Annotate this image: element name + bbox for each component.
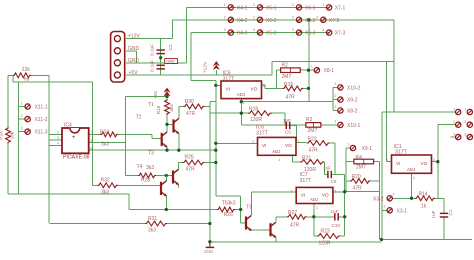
- svg-text:+: +: [72, 134, 76, 141]
- svg-text:3: 3: [252, 140, 254, 144]
- svg-text:R3: R3: [306, 117, 313, 123]
- svg-text:3k3: 3k3: [148, 228, 156, 234]
- svg-text:1nF: 1nF: [323, 166, 331, 171]
- svg-text:GND: GND: [128, 46, 140, 52]
- svg-text:1: 1: [278, 158, 280, 162]
- svg-text:C8: C8: [331, 179, 337, 184]
- svg-text:VO: VO: [421, 161, 428, 166]
- svg-text:VO: VO: [285, 143, 292, 148]
- svg-text:2: 2: [253, 15, 255, 19]
- svg-text:3: 3: [322, 28, 324, 32]
- svg-text:GND: GND: [204, 249, 214, 254]
- svg-text:1: 1: [253, 3, 255, 7]
- svg-text:2M7: 2M7: [356, 165, 366, 171]
- svg-text:X9-2: X9-2: [347, 98, 358, 104]
- svg-text:X4-2: X4-2: [237, 18, 248, 24]
- svg-text:47R: 47R: [290, 223, 300, 229]
- svg-text:C10: C10: [332, 223, 341, 228]
- svg-text:ADJ: ADJ: [407, 167, 415, 172]
- svg-text:2M7: 2M7: [282, 74, 292, 80]
- svg-text:R30: R30: [185, 99, 194, 105]
- svg-text:1: 1: [453, 108, 455, 112]
- svg-text:X8-2: X8-2: [347, 109, 358, 115]
- svg-text:R26: R26: [224, 212, 233, 218]
- svg-text:ADJ: ADJ: [310, 197, 318, 202]
- svg-text:1: 1: [316, 206, 318, 210]
- svg-text:X11-2: X11-2: [35, 117, 48, 123]
- svg-text:VI: VI: [226, 87, 230, 92]
- svg-text:+5V: +5V: [153, 90, 158, 99]
- svg-text:R31: R31: [148, 216, 157, 222]
- svg-text:GND: GND: [166, 59, 175, 64]
- svg-text:T6: T6: [246, 205, 252, 211]
- svg-text:0.1uF: 0.1uF: [150, 44, 155, 56]
- svg-text:VO: VO: [322, 192, 329, 197]
- svg-text:3: 3: [292, 28, 294, 32]
- svg-text:2: 2: [316, 15, 318, 19]
- svg-text:3: 3: [253, 28, 255, 32]
- svg-text:3: 3: [291, 189, 293, 193]
- svg-text:R4: R4: [356, 155, 363, 161]
- svg-text:2: 2: [21, 114, 23, 118]
- svg-text:3k3: 3k3: [228, 201, 236, 207]
- svg-text:47R: 47R: [353, 186, 363, 192]
- svg-text:+12V: +12V: [128, 34, 140, 40]
- svg-text:6: 6: [91, 146, 93, 150]
- svg-text:3: 3: [453, 133, 455, 137]
- svg-text:X4-1: X4-1: [237, 5, 248, 11]
- svg-text:120R: 120R: [304, 167, 316, 173]
- svg-text:X4-3: X4-3: [237, 31, 248, 37]
- svg-text:2: 2: [433, 158, 435, 162]
- svg-text:T4: T4: [137, 164, 143, 170]
- svg-text:47R: 47R: [186, 167, 196, 173]
- svg-text:3: 3: [216, 84, 218, 88]
- svg-text:T1: T1: [148, 102, 154, 108]
- svg-text:R21: R21: [302, 156, 311, 162]
- svg-text:2: 2: [464, 120, 466, 124]
- svg-text:2: 2: [292, 15, 294, 19]
- svg-text:3: 3: [57, 136, 59, 140]
- svg-text:317T: 317T: [395, 150, 408, 156]
- svg-text:1: 1: [21, 102, 23, 106]
- svg-text:IC4: IC4: [64, 122, 72, 128]
- svg-text:R22: R22: [308, 137, 317, 143]
- svg-text:3k3: 3k3: [101, 142, 109, 148]
- svg-text:1: 1: [384, 204, 386, 208]
- svg-text:2: 2: [334, 82, 336, 86]
- svg-text:GND: GND: [128, 58, 140, 64]
- svg-text:VO: VO: [251, 87, 258, 92]
- svg-text:4: 4: [57, 142, 59, 146]
- svg-text:X3-2: X3-2: [373, 196, 384, 202]
- svg-text:C2: C2: [168, 44, 173, 50]
- svg-text:317T: 317T: [223, 76, 236, 82]
- svg-text:X7-1: X7-1: [335, 5, 346, 11]
- svg-text:1: 1: [464, 108, 466, 112]
- svg-text:R20: R20: [352, 174, 361, 180]
- svg-text:5: 5: [91, 139, 93, 143]
- svg-text:22k: 22k: [22, 67, 31, 73]
- svg-text:2: 2: [57, 131, 59, 135]
- svg-text:X11-3: X11-3: [35, 130, 48, 136]
- svg-text:1: 1: [322, 3, 324, 7]
- svg-text:2: 2: [263, 84, 265, 88]
- svg-text:3k3: 3k3: [101, 190, 109, 196]
- svg-text:R27: R27: [288, 210, 297, 216]
- svg-text:R18: R18: [249, 107, 258, 113]
- svg-text:R24: R24: [0, 131, 4, 140]
- svg-text:1: 1: [243, 101, 245, 105]
- svg-text:C1: C1: [448, 209, 453, 215]
- svg-text:1nF: 1nF: [283, 118, 291, 123]
- svg-text:X10-2: X10-2: [347, 85, 361, 91]
- svg-text:1: 1: [292, 3, 294, 7]
- svg-text:3: 3: [464, 133, 466, 137]
- svg-text:7: 7: [91, 130, 93, 134]
- svg-text:R16: R16: [284, 82, 293, 88]
- svg-text:ADJ: ADJ: [272, 149, 280, 154]
- svg-text:X7-2: X7-2: [329, 18, 340, 24]
- svg-text:VI: VI: [301, 192, 305, 197]
- svg-text:2: 2: [334, 105, 336, 109]
- svg-text:1: 1: [413, 176, 415, 180]
- svg-text:1: 1: [224, 3, 226, 7]
- svg-text:2: 2: [393, 192, 395, 196]
- svg-text:1: 1: [348, 143, 350, 147]
- svg-text:VI: VI: [262, 143, 266, 148]
- svg-text:R14: R14: [419, 191, 428, 197]
- svg-text:C6: C6: [285, 130, 291, 135]
- svg-text:3k3: 3k3: [169, 104, 174, 112]
- svg-text:R33: R33: [100, 130, 109, 136]
- svg-text:X11-1: X11-1: [35, 105, 48, 111]
- svg-text:1: 1: [334, 119, 336, 123]
- svg-text:X6-2: X6-2: [305, 18, 316, 24]
- svg-text:ADJ: ADJ: [237, 92, 245, 97]
- svg-text:R19: R19: [156, 105, 161, 114]
- svg-text:+12V: +12V: [203, 61, 209, 73]
- svg-text:X9-1: X9-1: [362, 146, 373, 152]
- svg-text:R32: R32: [101, 177, 110, 183]
- svg-text:3: 3: [224, 28, 226, 32]
- svg-text:X3-1: X3-1: [397, 208, 408, 214]
- svg-text:18k: 18k: [10, 131, 15, 139]
- svg-text:X5-3: X5-3: [266, 31, 277, 37]
- svg-text:R25: R25: [185, 155, 194, 161]
- svg-text:3: 3: [386, 158, 388, 162]
- svg-text:1: 1: [311, 65, 313, 69]
- svg-text:1nF: 1nF: [331, 209, 339, 214]
- svg-text:3k3: 3k3: [146, 165, 154, 171]
- svg-text:47R: 47R: [286, 94, 296, 100]
- svg-text:X10-1: X10-1: [347, 123, 361, 129]
- svg-text:X7-3: X7-3: [335, 31, 346, 37]
- svg-text:+5V: +5V: [129, 70, 139, 76]
- svg-text:317T: 317T: [256, 130, 269, 136]
- svg-text:X6-3: X6-3: [305, 31, 316, 37]
- svg-text:2: 2: [334, 189, 336, 193]
- svg-text:0.1uF: 0.1uF: [150, 60, 155, 72]
- svg-text:X8-1: X8-1: [324, 68, 335, 74]
- svg-text:1k: 1k: [421, 204, 427, 210]
- svg-text:2: 2: [224, 15, 226, 19]
- svg-text:120R: 120R: [250, 117, 262, 123]
- svg-text:2: 2: [453, 120, 455, 124]
- svg-text:2: 2: [334, 94, 336, 98]
- svg-text:T3: T3: [148, 151, 154, 157]
- svg-text:120R: 120R: [319, 240, 331, 246]
- svg-text:47R: 47R: [309, 148, 319, 154]
- svg-text:X5-2: X5-2: [266, 18, 277, 24]
- svg-text:R23: R23: [321, 229, 330, 235]
- svg-text:PICAXE-08: PICAXE-08: [63, 154, 90, 160]
- svg-text:3: 3: [21, 127, 23, 131]
- svg-text:VI: VI: [396, 161, 400, 166]
- svg-text:T2: T2: [136, 114, 142, 120]
- svg-text:47R: 47R: [186, 111, 196, 117]
- svg-text:R28: R28: [141, 178, 150, 184]
- svg-text:X6-1: X6-1: [305, 5, 316, 11]
- svg-text:R6: R6: [24, 77, 30, 82]
- svg-text:X5-1: X5-1: [266, 5, 277, 11]
- svg-text:317T: 317T: [300, 178, 313, 184]
- svg-text:R2: R2: [282, 62, 289, 68]
- svg-text:2M7: 2M7: [308, 128, 318, 134]
- svg-text:2: 2: [298, 140, 300, 144]
- svg-text:1uF: 1uF: [431, 210, 436, 218]
